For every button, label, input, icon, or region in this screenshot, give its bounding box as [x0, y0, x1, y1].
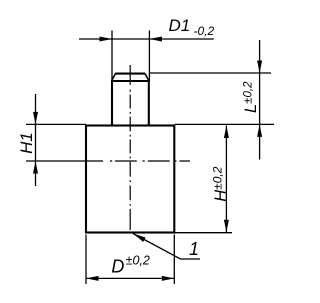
dimension D: left extension line [85, 235, 87, 285]
leader line for item 1 [133, 234, 200, 260]
svg-text:-0,2: -0,2 [194, 24, 215, 38]
dimension D1: right extension line [148, 31, 150, 82]
dimension H: bottom extension line [175, 232, 232, 234]
dimension D1: right arrowhead [149, 37, 162, 42]
dimension D1: left arrowhead [100, 37, 113, 42]
dimension D: right extension line [173, 235, 175, 285]
dimension L: bottom extension line [175, 123, 274, 125]
body outline (large cylinder, side view) [86, 126, 174, 233]
dimension D: left arrowhead [86, 276, 99, 281]
boss shoulder line [111, 80, 150, 82]
horizontal centerline [87, 160, 190, 162]
dimension D1: left extension line [111, 31, 113, 82]
dimension H1: dimension line [35, 94, 37, 186]
dimension H: dimension line [225, 126, 227, 233]
dimension L: bottom arrowhead [257, 124, 262, 136]
svg-text:H1: H1 [17, 132, 36, 154]
dimension L: top extension line [150, 72, 271, 74]
chamfer top line [115, 73, 145, 75]
svg-text:D: D [111, 256, 124, 276]
svg-text:±0,2: ±0,2 [126, 254, 150, 268]
chamfer right slant [145, 74, 149, 81]
svg-text:1: 1 [189, 239, 199, 259]
dimension D: right arrowhead [162, 276, 175, 281]
dimension H1: top arrowhead [33, 112, 38, 125]
dimension L: dimension line [259, 40, 261, 160]
leader arrowhead [133, 234, 146, 242]
dimension H1: bottom arrowhead [33, 161, 38, 174]
dimension H: top arrowhead [224, 126, 229, 139]
dimension D1: dimension line [79, 38, 214, 40]
dimension H1: bottom extension line [26, 160, 87, 162]
svg-text:D1: D1 [169, 16, 191, 35]
svg-text:L±0,2: L±0,2 [242, 81, 260, 113]
dimension H: bottom arrowhead [224, 220, 229, 233]
boss left edge [111, 81, 113, 125]
chamfer left slant [112, 74, 116, 81]
vertical centerline [129, 65, 131, 230]
dimension H1: top extension line [26, 123, 86, 125]
dimension D: dimension line [86, 277, 174, 279]
boss right edge [148, 81, 150, 125]
dimension L: top arrowhead [257, 61, 262, 74]
